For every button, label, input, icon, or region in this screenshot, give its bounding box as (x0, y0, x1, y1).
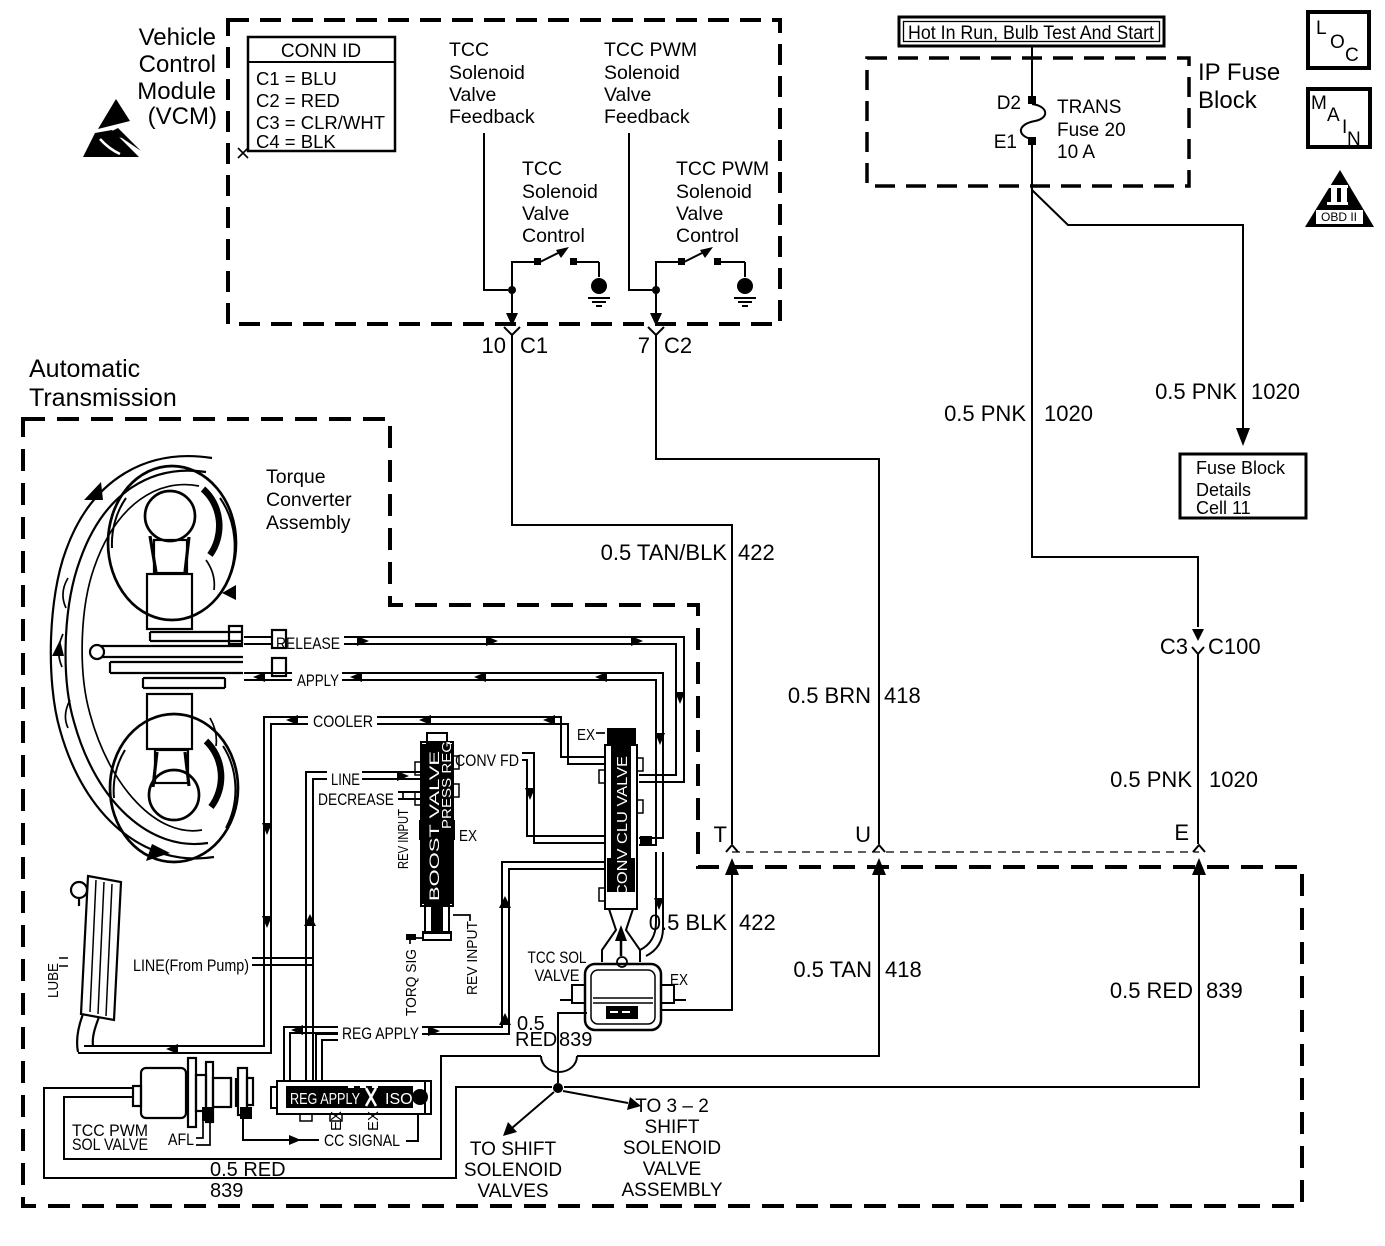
cooler radiator drawing (59, 876, 121, 1052)
channel LINE (306, 772, 421, 1080)
svg-text:REV INPUT: REV INPUT (395, 809, 412, 869)
wire 0.5 PNK 1020 branch to fuse block details (1032, 190, 1243, 428)
svg-text:418: 418 (885, 957, 922, 982)
channel COOLER (78, 717, 604, 1053)
svg-text:1020: 1020 (1209, 767, 1258, 792)
svg-text:M: M (1311, 93, 1327, 114)
icon LOC (1308, 12, 1369, 68)
svg-text:C2: C2 (664, 333, 692, 358)
svg-text:839: 839 (559, 1029, 592, 1051)
box Fuse Block Details Cell 11 (1180, 454, 1306, 518)
svg-text:Valve: Valve (676, 203, 723, 225)
svg-text:0.5 TAN: 0.5 TAN (793, 957, 872, 982)
svg-text:Assembly: Assembly (266, 512, 351, 534)
channel CC SIGNAL (243, 1119, 319, 1140)
wire TCC feedback (484, 133, 508, 290)
svg-text:A: A (1327, 105, 1340, 126)
svg-text:Transmission: Transmission (29, 384, 177, 412)
wire 0.5 PNK 1020 to pin E (1197, 654, 1199, 844)
svg-text:Feedback: Feedback (449, 106, 535, 128)
svg-text:Solenoid: Solenoid (676, 181, 752, 203)
svg-text:APPLY: APPLY (297, 671, 339, 690)
label TCC PWM Solenoid Valve Control (676, 158, 769, 247)
IP Fuse Block dashed enclosure (867, 58, 1189, 186)
svg-text:1020: 1020 (1251, 379, 1300, 404)
label TCC Solenoid Valve Control (522, 158, 598, 247)
svg-text:SOLENOID: SOLENOID (623, 1138, 721, 1159)
ground TCC (591, 278, 607, 294)
channel DECREASE (398, 792, 421, 799)
svg-text:Feedback: Feedback (604, 106, 690, 128)
svg-text:0.5 RED: 0.5 RED (1110, 978, 1193, 1003)
label Hot In Run Bulb Test And Start (899, 17, 1164, 46)
svg-text:Control: Control (676, 225, 739, 247)
svg-text:Valve: Valve (449, 84, 496, 106)
svg-text:C100: C100 (1208, 634, 1261, 659)
svg-text:LUBE: LUBE (45, 963, 62, 998)
svg-text:D2: D2 (997, 93, 1021, 114)
wire arrow into connector C2 (655, 293, 657, 314)
wire TCC PWM feedback (629, 133, 652, 290)
svg-text:7: 7 (638, 333, 650, 358)
svg-text:(VCM): (VCM) (148, 103, 217, 130)
svg-text:TCC SOL: TCC SOL (528, 948, 587, 967)
svg-text:TO 3 – 2: TO 3 – 2 (635, 1096, 709, 1117)
svg-text:VALVE: VALVE (643, 1159, 701, 1180)
svg-text:CONV CLU VALVE: CONV CLU VALVE (614, 756, 631, 896)
svg-text:0.5 BLK: 0.5 BLK (649, 910, 728, 935)
wire from hot feed to fuse (1031, 46, 1033, 96)
svg-text:Control: Control (139, 51, 216, 78)
wire arrow into connector C1 (511, 293, 513, 314)
channel RELEASE (244, 637, 684, 782)
channel APPLY (244, 673, 663, 956)
svg-text:Valve: Valve (604, 84, 651, 106)
svg-text:CONV FD: CONV FD (455, 751, 519, 770)
svg-text:VALVE: VALVE (535, 966, 580, 985)
connector pin E (1193, 845, 1205, 852)
svg-text:REG APPLY: REG APPLY (290, 1091, 360, 1108)
svg-text:Hot In Run, Bulb Test And Star: Hot In Run, Bulb Test And Start (908, 23, 1155, 44)
svg-text:Details: Details (1196, 480, 1251, 500)
svg-text:REG APPLY: REG APPLY (342, 1024, 419, 1043)
wire 0.5 TAN/BLK 422 from C1 (512, 341, 732, 844)
CONN ID table (238, 37, 395, 158)
funnel to TCC solenoid valve (602, 909, 640, 962)
svg-text:CC SIGNAL: CC SIGNAL (324, 1131, 400, 1150)
label Vehicle Control Module (VCM) (137, 24, 217, 130)
svg-text:E1: E1 (994, 132, 1017, 153)
svg-text:IP Fuse: IP Fuse (1198, 59, 1280, 86)
svg-text:C3 = CLR/WHT: C3 = CLR/WHT (256, 112, 385, 133)
svg-text:10 A: 10 A (1057, 142, 1095, 163)
channel REG APPLY (284, 862, 604, 1080)
switch TCC solenoid valve control (512, 251, 599, 290)
svg-text:Control: Control (522, 225, 585, 247)
label TO 3-2 SHIFT SOLENOID VALVE ASSEMBLY (621, 1096, 722, 1201)
svg-text:0.5 PNK: 0.5 PNK (944, 401, 1026, 426)
switch TCC PWM solenoid valve control (656, 251, 745, 290)
Automatic Transmission dashed enclosure (23, 419, 1302, 1206)
svg-text:0.5 PNK: 0.5 PNK (1110, 767, 1192, 792)
svg-text:O: O (1330, 32, 1345, 53)
svg-text:LINE(From Pump): LINE(From Pump) (133, 956, 249, 975)
ground TCC PWM (737, 278, 753, 294)
svg-text:TORQ SIG: TORQ SIG (403, 949, 420, 1016)
svg-text:SOL VALVE: SOL VALVE (72, 1135, 148, 1154)
svg-text:C1: C1 (520, 333, 548, 358)
fuse TRANS Fuse 20 10A (1028, 96, 1036, 104)
connector pin 7 C2 (648, 327, 664, 341)
valve CONV CLU VALVE (599, 728, 643, 909)
wire 0.5 RED 839 from TCC PWM solenoid (44, 1087, 552, 1178)
svg-text:C1 = BLU: C1 = BLU (256, 68, 337, 89)
svg-text:839: 839 (210, 1180, 243, 1202)
node splice junction (553, 1083, 563, 1093)
valve BOOST VALVE PRESS REG (415, 733, 459, 940)
node junction TCC (508, 286, 516, 294)
svg-text:OBD II: OBD II (1321, 210, 1357, 224)
svg-text:Converter: Converter (266, 489, 352, 511)
wire arrow to shift solenoid valves (512, 1092, 554, 1128)
svg-text:L: L (1316, 18, 1327, 39)
connector C3 C100 (1192, 629, 1204, 641)
svg-text:E: E (1174, 820, 1189, 845)
svg-text:AFL: AFL (168, 1130, 194, 1149)
svg-text:Block: Block (1198, 87, 1258, 114)
svg-text:Solenoid: Solenoid (604, 62, 680, 84)
svg-text:Module: Module (137, 78, 216, 105)
svg-text:EX: EX (365, 1111, 382, 1131)
svg-text:0.5 PNK: 0.5 PNK (1155, 379, 1237, 404)
wire 0.5 TAN 418 to TCC PWM solenoid (872, 858, 886, 875)
VCM dashed enclosure (228, 20, 780, 324)
label TO SHIFT SOLENOID VALVES (464, 1139, 562, 1202)
svg-text:Solenoid: Solenoid (449, 62, 525, 84)
svg-text:422: 422 (738, 540, 775, 565)
svg-text:Vehicle: Vehicle (139, 24, 216, 51)
wire 0.5 PNK 1020 from fuse (1032, 145, 1198, 627)
ESD sensitive device symbol (83, 99, 141, 157)
svg-text:Torque: Torque (266, 466, 326, 488)
svg-text:Fuse Block: Fuse Block (1196, 458, 1286, 478)
wire arrow to 3-2 shift solenoid valve assembly (563, 1091, 628, 1103)
svg-text:C2 = RED: C2 = RED (256, 90, 340, 111)
svg-text:RELEASE: RELEASE (276, 634, 340, 653)
connector line C160 (thin dashed) (732, 851, 1199, 853)
svg-text:Valve: Valve (522, 203, 569, 225)
svg-text:10: 10 (482, 333, 506, 358)
icon MAIN (1308, 89, 1370, 150)
svg-text:EX: EX (577, 727, 595, 744)
svg-text:0.5 BRN: 0.5 BRN (788, 683, 871, 708)
svg-text:COOLER: COOLER (313, 712, 373, 731)
svg-text:EX: EX (328, 1111, 345, 1131)
icon OBD II (1305, 170, 1374, 227)
svg-text:Solenoid: Solenoid (522, 181, 598, 203)
label TCC PWM Solenoid Valve Feedback (604, 39, 697, 128)
channel LINE from pump (252, 958, 313, 965)
label TCC Solenoid Valve Feedback (449, 39, 535, 128)
svg-text:EX: EX (459, 828, 477, 845)
wire 0.5 RED 839 to TCC solenoid valve (558, 1013, 587, 1083)
svg-text:1020: 1020 (1044, 401, 1093, 426)
svg-text:418: 418 (884, 683, 921, 708)
solenoid TCC PWM SOL VALVE (133, 1058, 253, 1127)
svg-text:N: N (1347, 129, 1361, 150)
svg-text:SOLENOID: SOLENOID (464, 1160, 562, 1181)
svg-text:839: 839 (1206, 978, 1243, 1003)
svg-text:ISO: ISO (385, 1091, 413, 1108)
connector pin U (873, 845, 885, 852)
connector pin 10 C1 (504, 327, 520, 341)
svg-text:TCC: TCC (522, 158, 562, 180)
svg-text:TRANS: TRANS (1057, 97, 1121, 118)
svg-text:C4 = BLK: C4 = BLK (256, 131, 336, 152)
svg-text:SHIFT: SHIFT (645, 1117, 700, 1138)
svg-text:LINE: LINE (331, 770, 360, 789)
wire 0.5 BRN 418 from C2 (656, 341, 879, 844)
svg-text:C: C (1345, 45, 1359, 66)
svg-text:0.5 RED: 0.5 RED (210, 1159, 286, 1181)
wire 0.5 BLK 422 to TCC solenoid valve (725, 858, 739, 875)
svg-text:TCC: TCC (449, 39, 489, 61)
svg-text:PRESS REG: PRESS REG (439, 741, 454, 829)
svg-text:422: 422 (739, 910, 776, 935)
svg-text:RED: RED (515, 1029, 557, 1051)
svg-text:T: T (714, 822, 727, 847)
svg-text:VALVES: VALVES (477, 1181, 548, 1202)
wire 0.5 RED 839 from pin E (1192, 858, 1206, 875)
channel CONV FD (451, 753, 604, 843)
svg-text:Cell 11: Cell 11 (1196, 498, 1251, 518)
svg-text:EX: EX (670, 972, 688, 989)
valve TCC SOL VALVE (560, 964, 686, 1030)
svg-text:REV INPUT: REV INPUT (464, 921, 481, 995)
svg-text:DECREASE: DECREASE (318, 790, 394, 809)
svg-text:U: U (855, 822, 871, 847)
svg-text:ASSEMBLY: ASSEMBLY (621, 1180, 722, 1201)
torque converter assembly drawing (51, 456, 286, 862)
node junction TCC PWM (652, 286, 660, 294)
svg-text:TO SHIFT: TO SHIFT (470, 1139, 557, 1160)
svg-text:TCC PWM: TCC PWM (676, 158, 769, 180)
connector pin T (726, 845, 738, 852)
svg-text:CONN ID: CONN ID (281, 41, 361, 62)
svg-text:C3: C3 (1160, 634, 1188, 659)
svg-text:Fuse 20: Fuse 20 (1057, 120, 1126, 141)
valve REG APPLY ISO (271, 1081, 431, 1121)
svg-text:Automatic: Automatic (29, 355, 140, 383)
svg-text:TCC PWM: TCC PWM (604, 39, 697, 61)
svg-text:0.5 TAN/BLK: 0.5 TAN/BLK (601, 540, 728, 565)
